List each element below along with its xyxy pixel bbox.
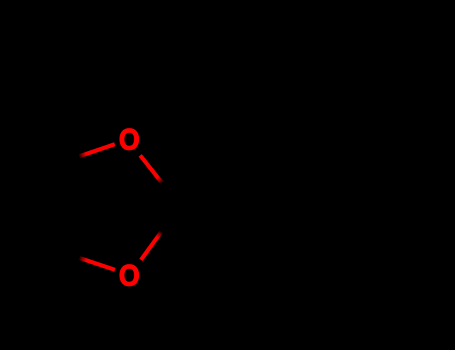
bond O4-C5 black half (to spiro carbon): [161, 207, 179, 232]
bond O1-C2 red half: [79, 144, 115, 156]
bond O1-C5 red half: [140, 155, 162, 182]
bond O1-C5 black half (to spiro carbon): [162, 183, 180, 207]
bond C2-C3 (dioxolane ethylene bridge, black on black): [48, 165, 52, 248]
bond O4-C3 red half: [79, 258, 115, 270]
svg-text:O: O: [119, 259, 140, 293]
svg-text:O: O: [119, 123, 140, 157]
cyclohexane ring of spiro[4.5]decane (black on black): [180, 134, 348, 279]
atom O1 (upper oxygen label): [119, 123, 140, 157]
bond O4-C3 black half: [50, 249, 79, 258]
bond O4-C5 red half: [141, 232, 161, 260]
bond O1-C2 black half: [50, 156, 79, 165]
methyl substituent bond (black on black): [304, 50, 308, 134]
atom O4 (lower oxygen label): [119, 259, 140, 293]
